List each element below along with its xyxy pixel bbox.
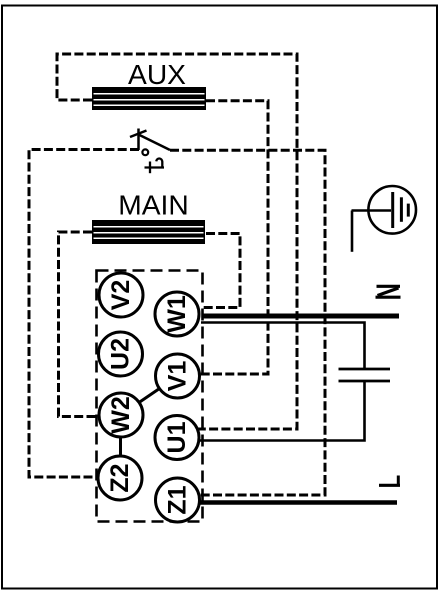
svg-text:W2: W2 xyxy=(107,396,135,434)
svg-text:AUX: AUX xyxy=(128,58,186,90)
winding MAIN xyxy=(92,220,205,244)
link W2-V1 xyxy=(139,389,160,403)
wire aux loop: AUX left terminal up, across top, down right side to U1 xyxy=(57,54,297,429)
terminal U2 xyxy=(99,332,143,376)
link W2-Z2 xyxy=(119,437,122,456)
thermal switch t° xyxy=(130,129,170,174)
svg-text:V2: V2 xyxy=(107,280,135,311)
label N xyxy=(376,286,401,297)
N line xyxy=(202,314,399,319)
wire MAIN right to W1 xyxy=(202,234,240,308)
terminal W2 xyxy=(99,393,143,437)
terminal box xyxy=(97,271,203,522)
svg-text:Z1: Z1 xyxy=(164,485,192,514)
wire AUX right terminal down to V1 xyxy=(198,101,268,374)
winding AUX xyxy=(92,87,206,110)
wire MAIN left to W2 xyxy=(59,232,100,417)
capacitor C xyxy=(339,369,391,381)
svg-text:MAIN: MAIN xyxy=(118,189,188,221)
terminal Z1 xyxy=(156,478,200,522)
label L xyxy=(379,476,400,486)
terminal W1 xyxy=(155,292,199,336)
wire capacitor to U1 xyxy=(198,382,365,441)
svg-text:Z2: Z2 xyxy=(106,463,134,492)
wire switch right down to Z1 xyxy=(170,150,325,495)
L line xyxy=(197,500,397,505)
svg-text:U1: U1 xyxy=(163,421,191,453)
terminal V1 xyxy=(156,354,200,398)
terminal Z2 xyxy=(98,456,142,500)
wire switch left to Z2 xyxy=(29,150,139,478)
terminal U1 xyxy=(155,416,199,460)
svg-text:V1: V1 xyxy=(164,361,192,392)
wire W1 to capacitor xyxy=(201,323,365,369)
svg-text:U2: U2 xyxy=(107,338,135,370)
svg-text:W1: W1 xyxy=(163,295,191,333)
terminal V2 xyxy=(99,273,143,317)
earth ground symbol xyxy=(352,186,417,252)
